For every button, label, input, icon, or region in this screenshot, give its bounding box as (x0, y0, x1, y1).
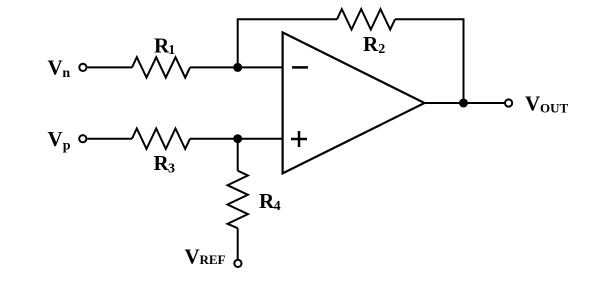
wire Vn terminal to R1 (88, 66, 133, 68)
label Vout (525, 92, 569, 116)
wire Vp terminal to R3 (87, 138, 132, 140)
svg-text:OUT: OUT (540, 100, 569, 115)
label Vref (185, 245, 226, 269)
resistor R2 (337, 9, 395, 29)
node Vout output terminal (505, 99, 512, 106)
node Vp input terminal (79, 135, 86, 142)
resistor R3 (132, 129, 190, 149)
label Vn (48, 56, 71, 82)
wire R4 down to Vref terminal (237, 228, 239, 259)
op-amp plus sign (291, 131, 307, 147)
svg-text:V: V (525, 92, 540, 116)
svg-text:V: V (48, 56, 63, 80)
resistor R4 (228, 171, 248, 229)
svg-text:R: R (363, 32, 379, 56)
wire R2 right and down to output node (feedback right) (395, 19, 464, 103)
svg-text:n: n (62, 66, 70, 81)
wire node B down to R4 (237, 139, 239, 171)
node B (non-inverting input junction) (233, 134, 242, 143)
op-amp U1 (283, 32, 425, 173)
svg-text:2: 2 (378, 42, 385, 57)
svg-text:1: 1 (168, 43, 175, 58)
node A (inverting input junction) (233, 63, 242, 72)
wire R1 to op-amp inverting input (190, 66, 283, 68)
label R3 (154, 151, 176, 176)
resistor R1 (132, 57, 190, 77)
svg-text:REF: REF (200, 252, 226, 267)
label R1 (154, 33, 175, 57)
svg-text:V: V (48, 127, 63, 151)
svg-text:p: p (63, 139, 71, 154)
svg-text:R: R (259, 189, 275, 213)
label R2 (363, 32, 385, 57)
svg-text:4: 4 (274, 199, 281, 214)
op-amp minus sign (292, 66, 308, 69)
wire op-amp output (425, 102, 505, 104)
wire R3 to op-amp non-inverting input (190, 138, 283, 140)
node C (output junction) (459, 99, 468, 108)
node Vref terminal (234, 260, 241, 267)
wire node A up and right to R2 (feedback left) (238, 19, 337, 67)
label R4 (259, 189, 281, 214)
label Vp (48, 127, 71, 154)
node Vn input terminal (79, 64, 86, 71)
svg-text:3: 3 (168, 161, 175, 176)
svg-text:V: V (185, 245, 200, 269)
